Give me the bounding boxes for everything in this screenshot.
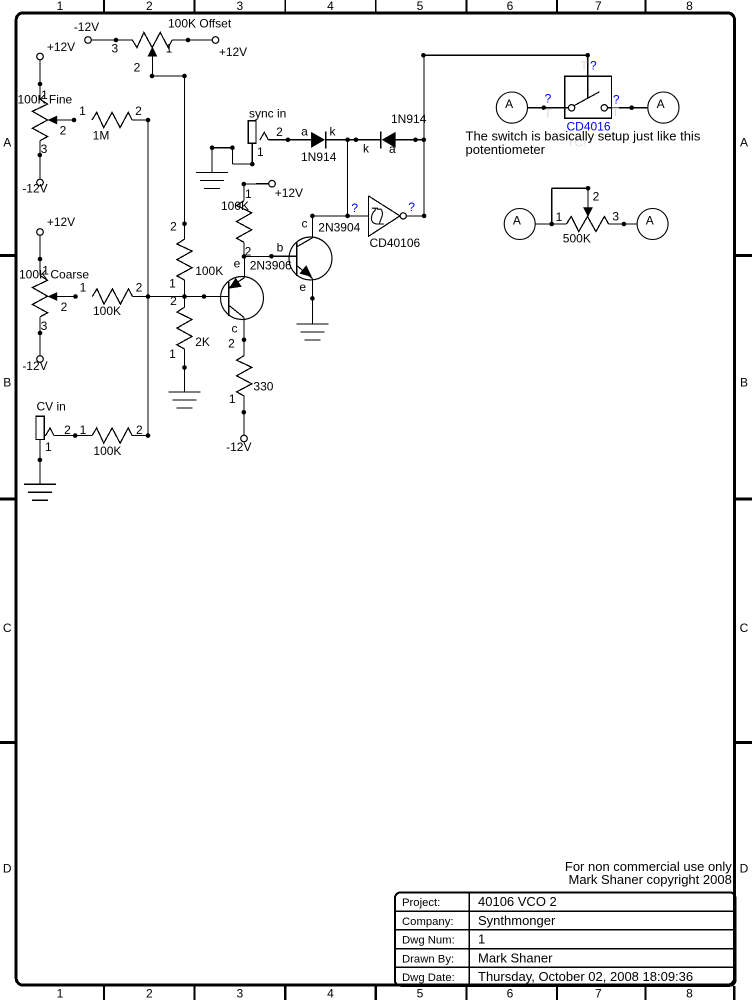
- svg-text:2: 2: [593, 190, 600, 204]
- potentiometer 100K Coarse body: [19, 267, 89, 317]
- svg-text:-12V: -12V: [226, 440, 251, 454]
- svg-text:8: 8: [686, 986, 693, 1000]
- port A (switch right): [648, 92, 679, 123]
- wire (feedback top): [421, 53, 590, 58]
- offset pot wiper arrow pin 2: [134, 47, 157, 76]
- jack J1 sync in: [248, 106, 286, 143]
- svg-text:1: 1: [257, 145, 264, 159]
- wire: [326, 138, 380, 143]
- svg-text:2: 2: [228, 336, 235, 350]
- svg-text:a: a: [389, 142, 396, 156]
- svg-text:1: 1: [556, 210, 563, 224]
- transistor Q1 2N3906: [221, 257, 293, 340]
- svg-text:D: D: [740, 861, 749, 875]
- wire (jack sleeve to ground): [38, 440, 52, 485]
- svg-text:b: b: [277, 240, 284, 254]
- coarse pot wiper arrow pin 2: [48, 293, 75, 314]
- svg-text:Company:: Company:: [402, 916, 454, 928]
- svg-text:1: 1: [80, 281, 87, 295]
- title block: [395, 892, 736, 985]
- diode D1 1N914: [301, 125, 337, 165]
- svg-text:1: 1: [166, 42, 173, 56]
- svg-text:3: 3: [41, 319, 48, 333]
- wire: [54, 423, 92, 438]
- jack tip contact: [260, 125, 283, 140]
- resistor 1M: [92, 112, 132, 142]
- node: [170, 220, 187, 234]
- svg-text:a: a: [301, 125, 308, 139]
- wire: [182, 280, 187, 392]
- resistor 100K (divider top): [177, 239, 223, 280]
- potentiometer 100K Fine body: [18, 92, 73, 140]
- svg-text:330: 330: [253, 380, 273, 394]
- svg-text:40106 VCO 2: 40106 VCO 2: [478, 894, 557, 909]
- pin 2 label: [135, 104, 142, 118]
- inverter U1 CD40106: [369, 196, 421, 250]
- jack tip contact: [45, 423, 71, 437]
- pin 1 label: [169, 347, 176, 361]
- svg-text:?: ?: [590, 58, 597, 72]
- node (Q2 emitter): [310, 296, 315, 301]
- wire: [172, 38, 212, 43]
- wire: [347, 140, 349, 216]
- svg-text:Dwg Num:: Dwg Num:: [402, 935, 455, 947]
- wire: [244, 183, 269, 185]
- svg-text:100K: 100K: [93, 444, 121, 458]
- svg-text:2: 2: [135, 104, 142, 118]
- wire: [91, 39, 132, 41]
- svg-text:potentiometer: potentiometer: [466, 142, 546, 157]
- svg-text:1N914: 1N914: [391, 112, 427, 126]
- ground (CV jack): [24, 484, 56, 500]
- svg-text:4: 4: [327, 986, 334, 1000]
- port A (pot left): [504, 209, 535, 240]
- wire: [535, 210, 566, 226]
- wire: [229, 392, 246, 435]
- fine pot wiper arrow pin 2: [48, 116, 74, 137]
- svg-text:Drawn By:: Drawn By:: [402, 953, 454, 965]
- potentiometer 100K Offset body: [132, 17, 232, 48]
- copyright note: [565, 859, 732, 887]
- ground (sync jack): [196, 172, 228, 188]
- svg-text:?: ?: [408, 200, 415, 214]
- svg-text:c: c: [302, 216, 308, 230]
- wire: [132, 118, 150, 123]
- terminal +12V (coarse pot pin 1): [37, 215, 75, 235]
- wire (main vertical bus): [147, 120, 149, 436]
- svg-text:A: A: [740, 135, 748, 149]
- svg-text:2: 2: [170, 220, 177, 234]
- svg-text:T: T: [612, 105, 620, 119]
- svg-text:T: T: [580, 59, 588, 73]
- wire: [395, 138, 426, 143]
- terminal +12V (fine pot pin 1): [37, 40, 75, 60]
- wire (feedback vertical): [423, 55, 425, 216]
- svg-text:2N3904: 2N3904: [318, 220, 360, 234]
- jack J2 CV in: [36, 399, 66, 439]
- switch U2 CD4016: [565, 58, 612, 133]
- wire: [184, 76, 186, 239]
- wire: [608, 93, 648, 120]
- pin 1 label: [166, 42, 173, 56]
- resistor 100K (CV in): [92, 428, 132, 458]
- svg-text:-12V: -12V: [22, 359, 47, 373]
- wire: [38, 235, 50, 277]
- svg-text:k: k: [363, 141, 370, 155]
- svg-text:100K: 100K: [221, 199, 249, 213]
- svg-text:1: 1: [57, 986, 64, 1000]
- svg-text:1: 1: [79, 104, 86, 118]
- svg-text:1: 1: [80, 423, 87, 437]
- wire: [587, 55, 589, 98]
- svg-text:Project:: Project:: [402, 897, 440, 909]
- resistor 100K (coarse): [92, 289, 132, 318]
- wire: [38, 141, 48, 180]
- svg-text:1: 1: [45, 440, 52, 454]
- svg-text:k: k: [330, 125, 337, 139]
- svg-text:3: 3: [41, 142, 48, 156]
- pin 2 label: [170, 294, 177, 308]
- svg-text:100K Fine: 100K Fine: [18, 92, 73, 106]
- svg-text:A: A: [657, 97, 665, 111]
- svg-text:100K Offset: 100K Offset: [168, 17, 232, 31]
- svg-text:?: ?: [545, 92, 552, 106]
- wire summing node row: [133, 294, 229, 299]
- ground (2K): [169, 392, 201, 408]
- svg-text:500K: 500K: [563, 232, 591, 246]
- svg-text:+12V: +12V: [275, 186, 303, 200]
- svg-text:A: A: [505, 97, 513, 111]
- port A (pot right): [637, 209, 668, 240]
- svg-text:1: 1: [169, 276, 176, 290]
- svg-text:100K Coarse: 100K Coarse: [19, 267, 89, 281]
- wire: [609, 209, 638, 226]
- svg-text:C: C: [3, 621, 12, 635]
- svg-text:e: e: [234, 256, 241, 270]
- svg-text:2K: 2K: [195, 335, 210, 349]
- svg-text:B: B: [3, 375, 11, 389]
- resistor 330: [237, 340, 274, 396]
- svg-text:3: 3: [111, 42, 118, 56]
- svg-text:2: 2: [146, 0, 153, 13]
- port A (switch left): [496, 92, 527, 123]
- svg-text:3: 3: [237, 0, 244, 13]
- svg-text:2N3906: 2N3906: [250, 258, 292, 272]
- svg-text:-12V: -12V: [22, 181, 47, 195]
- node pin3 junction: [111, 38, 118, 56]
- svg-text:B: B: [740, 375, 748, 389]
- svg-text:Thursday, October 02, 2008 18:: Thursday, October 02, 2008 18:09:36: [478, 969, 693, 984]
- svg-text:e: e: [299, 280, 306, 294]
- svg-text:Mark Shaner: Mark Shaner: [478, 950, 553, 965]
- svg-text:1: 1: [229, 392, 236, 406]
- transistor Q2 2N3904: [289, 216, 361, 324]
- svg-text:Mark Shaner copyright 2008: Mark Shaner copyright 2008: [568, 872, 731, 887]
- svg-text:C: C: [740, 621, 749, 635]
- svg-text:1N914: 1N914: [301, 150, 337, 164]
- svg-text:A: A: [646, 214, 654, 228]
- svg-text:3: 3: [237, 986, 244, 1000]
- svg-text:3: 3: [612, 209, 619, 223]
- svg-text:A: A: [513, 214, 521, 228]
- ghost label: [567, 135, 586, 149]
- svg-text:2: 2: [170, 294, 177, 308]
- diode D2 1N914: [363, 112, 427, 156]
- svg-text:100K: 100K: [195, 264, 223, 278]
- ground (Q2 emitter): [296, 324, 328, 340]
- wire: [150, 74, 187, 79]
- svg-text:2: 2: [60, 123, 67, 137]
- wire (gate output): [406, 200, 426, 218]
- svg-text:2: 2: [136, 281, 143, 295]
- svg-text:+12V: +12V: [219, 45, 247, 59]
- pin 1 label: [169, 276, 176, 290]
- svg-text:A: A: [3, 135, 11, 149]
- wire: [132, 433, 150, 438]
- 500K wiper arrow pin 2: [552, 186, 600, 224]
- terminal -12V (330): [226, 435, 251, 454]
- svg-text:5: 5: [417, 0, 424, 13]
- node (gate input): [310, 201, 368, 218]
- svg-text:8: 8: [686, 0, 693, 13]
- svg-text:D: D: [3, 861, 12, 875]
- svg-text:1M: 1M: [93, 129, 110, 143]
- annotation text: [466, 129, 701, 158]
- terminal -12V (offset pot pin 3): [74, 20, 99, 44]
- svg-text:?: ?: [351, 201, 358, 215]
- wire: [268, 138, 311, 143]
- potentiometer 500K body: [563, 216, 609, 245]
- wire: [528, 92, 569, 121]
- svg-text:2: 2: [146, 986, 153, 1000]
- terminal +12V (sync pullup): [269, 180, 303, 200]
- node: [228, 336, 246, 350]
- svg-text:CV in: CV in: [37, 399, 66, 413]
- resistor 100K (sync pullup): [221, 184, 252, 242]
- svg-text:1: 1: [169, 347, 176, 361]
- node: [72, 104, 86, 122]
- svg-text:-12V: -12V: [74, 20, 99, 34]
- pin 2 label: [136, 281, 143, 295]
- svg-text:+12V: +12V: [47, 40, 75, 54]
- terminal -12V (fine pot pin 3): [22, 179, 47, 195]
- svg-text:sync in: sync in: [249, 106, 286, 120]
- svg-text:5: 5: [417, 986, 424, 1000]
- svg-text:7: 7: [595, 986, 602, 1000]
- svg-text:T: T: [544, 107, 552, 121]
- node: [242, 182, 253, 201]
- svg-text:1: 1: [478, 932, 485, 947]
- svg-text:Synthmonger: Synthmonger: [478, 913, 556, 928]
- pin 2 label: [136, 423, 143, 437]
- node (Q1 emitter net): [234, 240, 297, 270]
- svg-text:CD40106: CD40106: [370, 236, 421, 250]
- svg-text:Dwg Date:: Dwg Date:: [402, 972, 455, 984]
- svg-text:+12V: +12V: [47, 215, 75, 229]
- svg-text:2: 2: [134, 60, 141, 74]
- diode D1 1N914 anode label: [301, 125, 308, 139]
- svg-text:1: 1: [57, 0, 64, 13]
- wire: [244, 242, 252, 258]
- terminal -12V (coarse pot pin 3): [22, 356, 47, 374]
- svg-text:6: 6: [507, 0, 514, 13]
- node: [73, 281, 86, 299]
- resistor 2K: [177, 307, 210, 349]
- svg-text:6: 6: [507, 986, 514, 1000]
- svg-text:4: 4: [327, 0, 334, 13]
- svg-text:2: 2: [61, 300, 68, 314]
- svg-text:2: 2: [276, 125, 283, 139]
- svg-text:100K: 100K: [93, 304, 121, 318]
- wire: [38, 317, 48, 356]
- wire: [38, 60, 48, 102]
- svg-text:c: c: [232, 321, 238, 335]
- wire (jack sleeve to ground): [210, 143, 264, 172]
- svg-text:7: 7: [595, 0, 602, 13]
- terminal +12V (offset pot pin 1): [212, 37, 247, 60]
